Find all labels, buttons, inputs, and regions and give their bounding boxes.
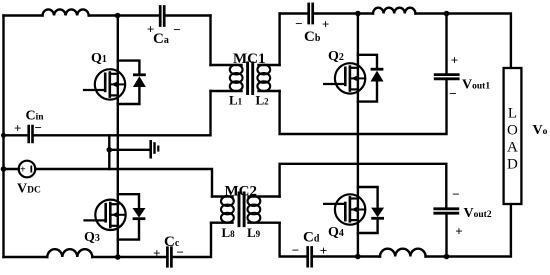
svg-text:L: L bbox=[508, 106, 517, 122]
wire L9 bottom to Cd bbox=[280, 223, 307, 257]
junction dot input node bbox=[107, 147, 113, 153]
svg-text:+: + bbox=[322, 17, 329, 32]
svg-text:Q4: Q4 bbox=[328, 225, 344, 240]
junction dot Q3 source at bottom wire bbox=[115, 254, 121, 260]
svg-text:A: A bbox=[507, 140, 518, 156]
MOSFET Q4 (mirrored) bbox=[324, 194, 365, 224]
svg-text:+: + bbox=[14, 121, 21, 136]
junction dot Cin at rail bbox=[1, 133, 6, 138]
coupled inductor MC2 left winding L8 leads bbox=[211, 197, 233, 223]
capacitor Cin bbox=[29, 126, 33, 142]
coupled inductor MC1 right winding L2 leads bbox=[259, 65, 280, 91]
coupled inductor MC2 right winding L9 leads bbox=[249, 197, 280, 223]
LOAD resistor box bbox=[504, 68, 522, 204]
capacitor Ca bbox=[160, 7, 164, 26]
coupled inductor MC1 core bbox=[248, 63, 253, 94]
wire inductor to top-right corner bbox=[416, 14, 511, 69]
svg-text:+: + bbox=[451, 53, 458, 68]
wire inductor to Cc bbox=[92, 256, 166, 258]
svg-text:−: − bbox=[452, 187, 459, 202]
body diode D4 bbox=[371, 208, 384, 218]
wire inductor to Ca left plate (through node) bbox=[89, 14, 159, 16]
wire Cc to MC2 bottom-left corner bbox=[173, 223, 211, 257]
inductor bottom-left input bbox=[47, 249, 92, 257]
body diode D1 bbox=[134, 73, 144, 76]
wire input-node vertical bbox=[108, 135, 110, 169]
wire Cb left bbox=[280, 12, 308, 14]
svg-text:−: − bbox=[292, 243, 299, 258]
coupled inductor MC2 core bbox=[239, 193, 244, 226]
body diode D3 bbox=[133, 208, 146, 218]
ground bbox=[149, 141, 152, 157]
coupled inductor MC1 left winding L1 leads bbox=[211, 65, 242, 91]
junction dot Q4 source at bottom wire bbox=[355, 254, 361, 260]
svg-text:−: − bbox=[295, 16, 302, 31]
junction dot Vout2 bottom bbox=[444, 254, 450, 260]
inductor bottom-right output bbox=[380, 249, 426, 257]
wire top-left from rail to inductor bbox=[4, 14, 43, 16]
MOSFET Q3 bbox=[85, 200, 126, 230]
capacitor Cc bbox=[167, 248, 171, 267]
svg-text:Q2: Q2 bbox=[328, 49, 344, 64]
junction dot Vout1 top bbox=[444, 11, 450, 17]
body diode D4 branch wires bbox=[358, 187, 378, 233]
wire L2 top up to Cb bbox=[278, 14, 280, 66]
wire L2 bottom to Vout1 bottom bbox=[280, 80, 447, 134]
inductor top-right output bbox=[373, 8, 415, 14]
wire left rail to Cin bbox=[4, 134, 28, 136]
wire to ground bbox=[109, 149, 149, 151]
coupled inductor MC1 winding L1 loops bbox=[230, 65, 243, 91]
wire Ca right plate to corner bbox=[166, 14, 211, 16]
wire Cb right to inductor (through node) bbox=[314, 12, 373, 14]
node A junction dot bbox=[115, 13, 121, 19]
svg-text:−: − bbox=[34, 120, 41, 135]
capacitor Cd bbox=[308, 248, 312, 267]
svg-text:Q3: Q3 bbox=[84, 230, 100, 245]
coupled inductor MC2 winding L8 loops bbox=[221, 196, 234, 222]
svg-text:−: − bbox=[176, 244, 183, 259]
wire Cin to MC1 bottom corner bbox=[34, 91, 211, 135]
svg-text:Q1: Q1 bbox=[91, 51, 107, 66]
MOSFET Q2 bbox=[324, 63, 365, 93]
junction dot VDC at rail bbox=[1, 166, 7, 172]
wire bottom-left from rail bbox=[4, 256, 48, 258]
svg-text:−: − bbox=[449, 86, 456, 101]
svg-text:+: + bbox=[455, 224, 462, 239]
capacitor Vout1 bbox=[435, 75, 458, 79]
MOSFET Q1 bbox=[84, 69, 125, 99]
body diode D2 bbox=[372, 68, 382, 71]
wire L9 top to Vout2 top bbox=[280, 164, 447, 208]
source VDC circle bbox=[19, 161, 36, 178]
svg-text:MC1: MC1 bbox=[233, 51, 266, 67]
wire Vout2 bottom vertical bbox=[445, 215, 447, 257]
wire corner down to L1 top bbox=[209, 16, 211, 66]
wire inductor to bottom-right corner up to LOAD bbox=[426, 204, 511, 257]
wire left rail vertical bbox=[2, 16, 4, 258]
body diode D3 branch wires bbox=[118, 194, 139, 239]
wire right rail Q2-Q4 bbox=[357, 14, 359, 257]
svg-text:MC2: MC2 bbox=[225, 184, 258, 200]
svg-text:D: D bbox=[507, 157, 518, 173]
svg-text:O: O bbox=[507, 123, 518, 139]
coupled inductor MC1 winding L2 loops bbox=[257, 65, 270, 91]
svg-text:+: + bbox=[20, 165, 26, 176]
wire VDC to MC2 top-left corner bbox=[35, 169, 212, 197]
svg-text:−: − bbox=[173, 22, 180, 37]
capacitor Cb bbox=[309, 4, 313, 23]
capacitor Vout2 bbox=[435, 209, 458, 213]
svg-text:+: + bbox=[320, 243, 327, 258]
coupled inductor MC2 winding L9 loops bbox=[248, 196, 261, 222]
svg-text:+: + bbox=[147, 22, 154, 37]
source VDC minus dash bbox=[30, 166, 32, 171]
body diode D1 branch wires bbox=[118, 61, 140, 104]
body diode D2 branch wires bbox=[358, 55, 377, 102]
svg-text:+: + bbox=[153, 246, 160, 261]
inductor top-left input bbox=[43, 9, 89, 15]
wire Cd to bottom-right inductor bbox=[313, 255, 380, 257]
junction dot Q2 drain node bbox=[355, 11, 361, 17]
source VDC wire from rail bbox=[4, 168, 19, 170]
wire switch-node rail x=118 bbox=[117, 16, 119, 258]
wire Vout1 top vertical bbox=[445, 14, 447, 74]
